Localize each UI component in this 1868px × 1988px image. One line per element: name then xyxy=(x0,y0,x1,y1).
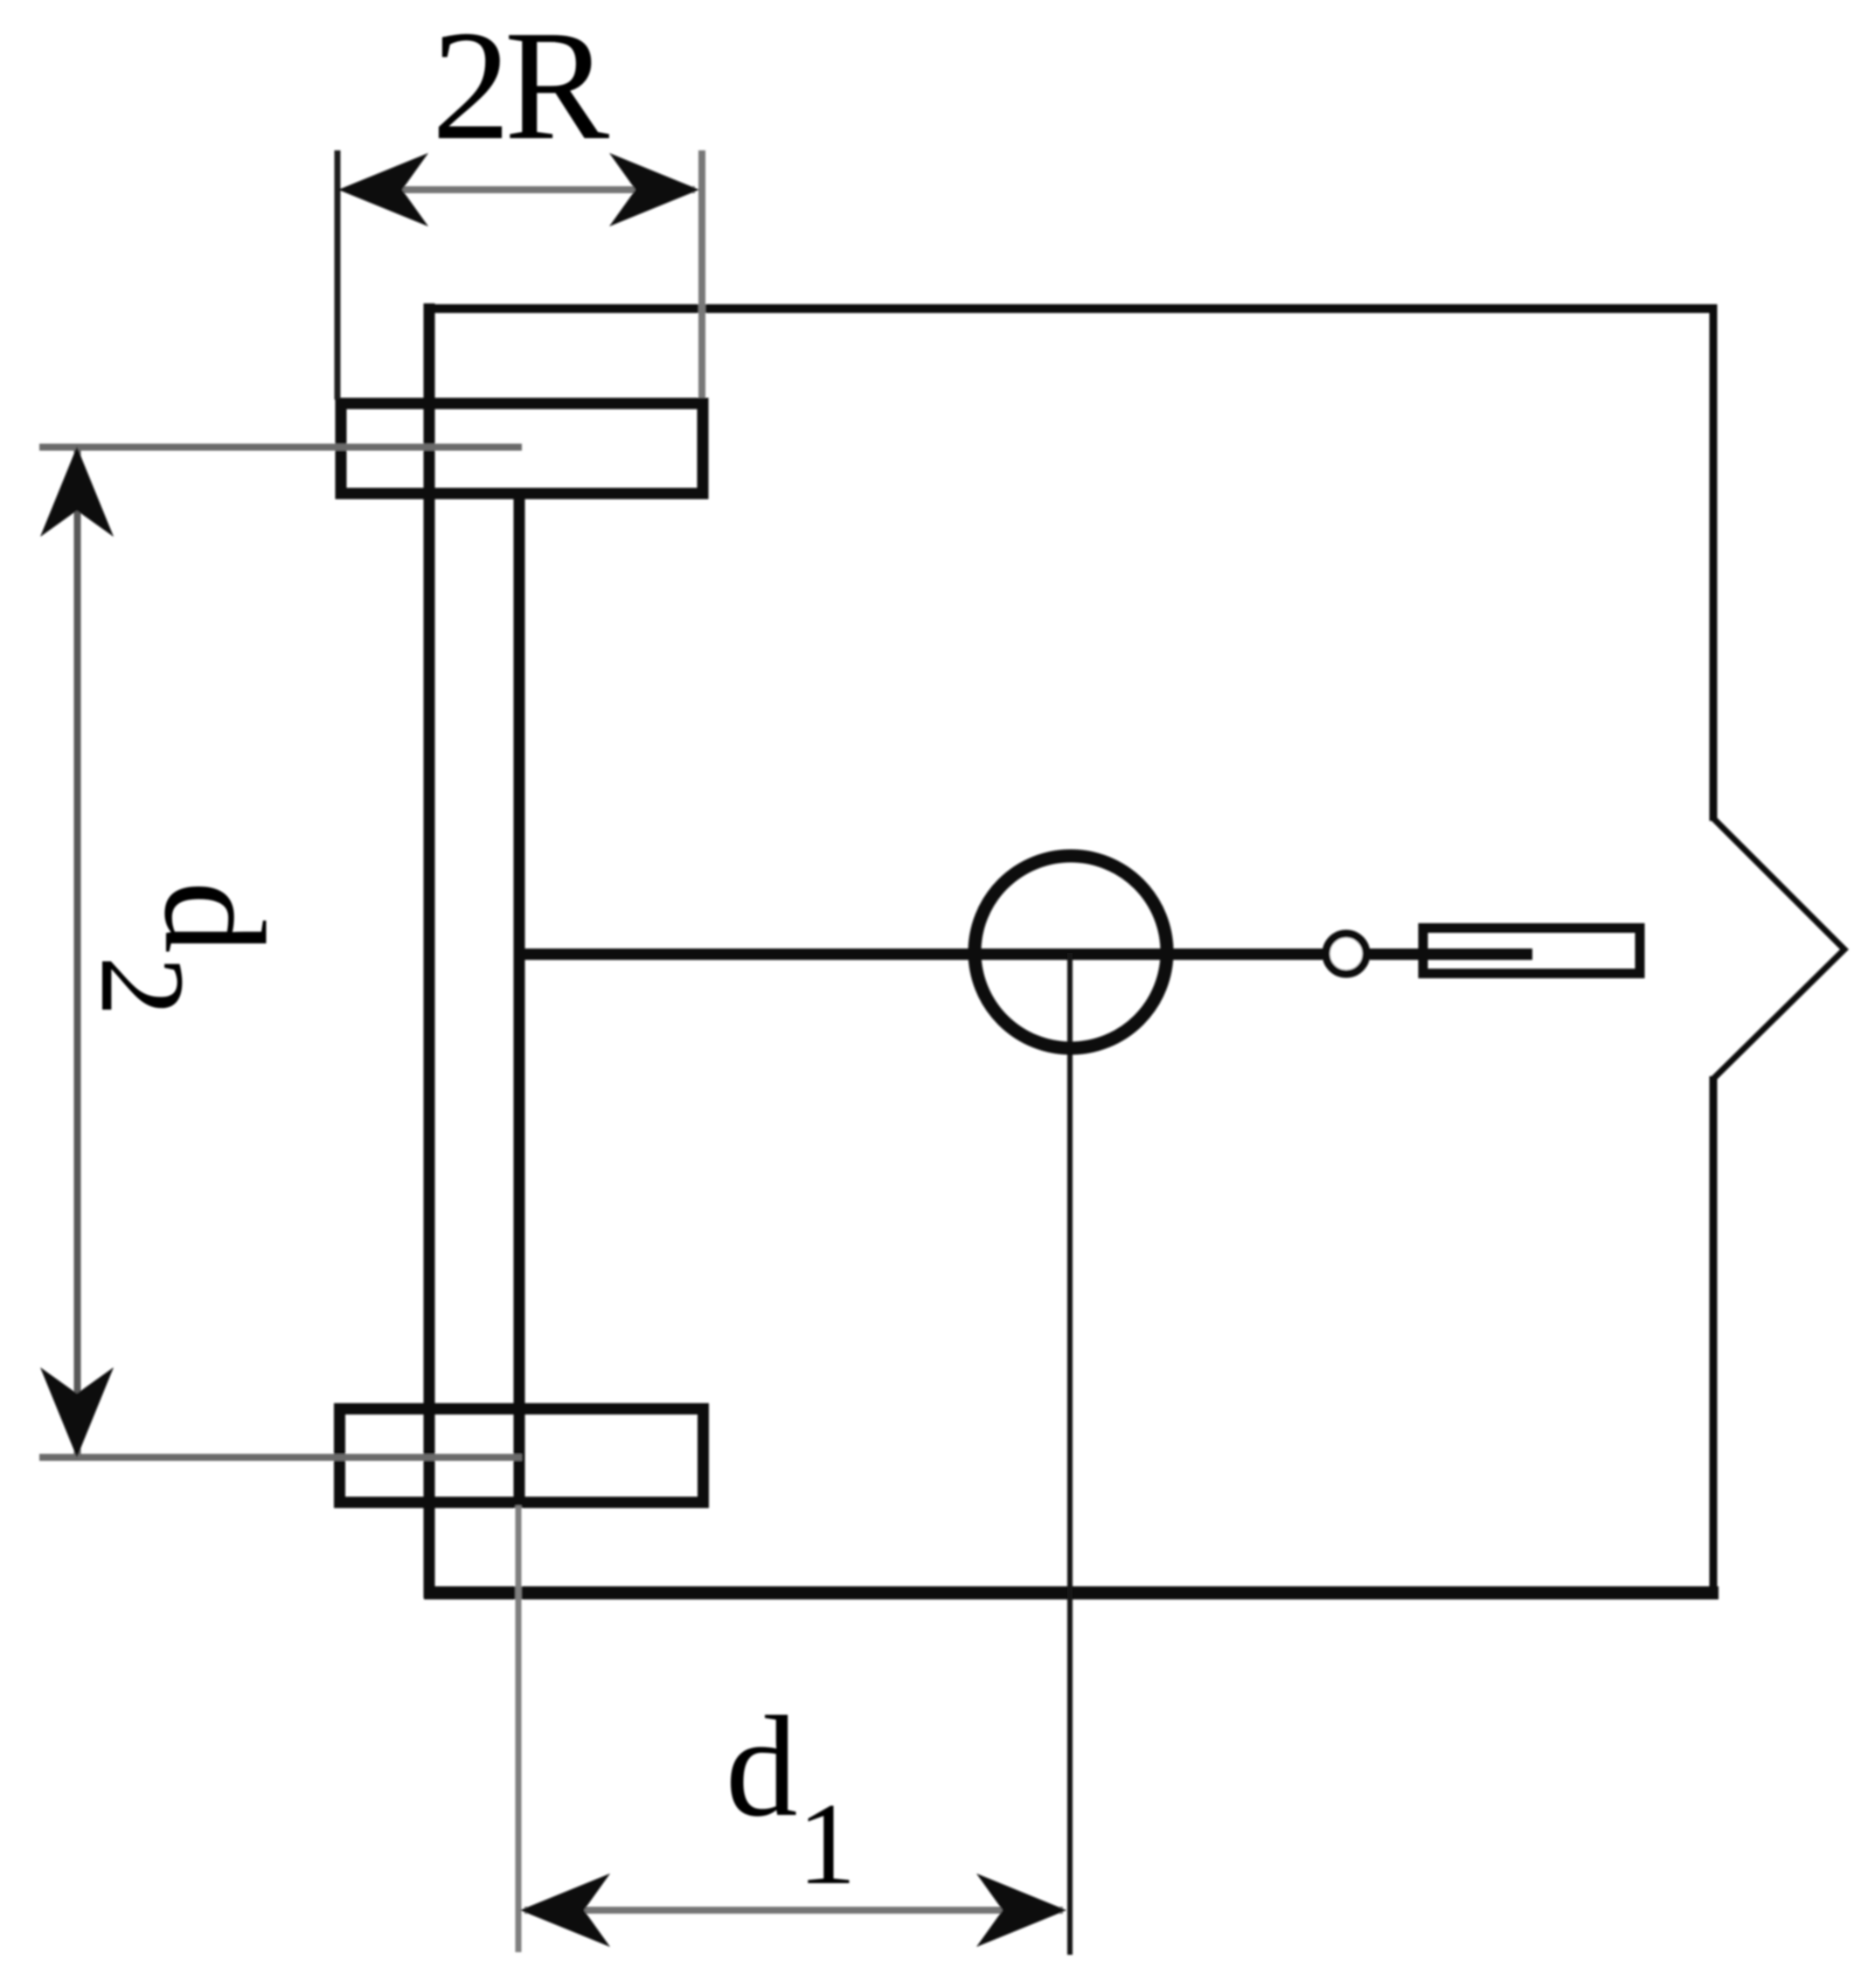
wire: body right edge upper segment xyxy=(1710,304,1718,821)
bottom stub rectangle xyxy=(340,1409,704,1503)
wire: body left edge / strip left conductor xyxy=(424,303,435,1598)
small junction circle xyxy=(1326,934,1366,974)
dimension d2: dimension line xyxy=(74,450,81,1454)
dimension 2R: right extension line xyxy=(698,150,705,398)
dimension 2R: dimension line xyxy=(345,186,695,193)
wire: strip right conductor xyxy=(514,490,525,1506)
dimension d2: top extension line xyxy=(39,444,522,451)
connector rectangle xyxy=(1423,928,1640,974)
node: vertical center line from circle down to d1 extension xyxy=(1067,953,1073,1955)
svg-text:2R: 2R xyxy=(432,0,609,172)
dimension d2: bottom extension line xyxy=(39,1454,522,1461)
dimension d1: dimension line xyxy=(524,1907,1063,1914)
dimension d1: left extension line (below strip) xyxy=(516,1505,522,1952)
wire: body bottom edge xyxy=(424,1587,1719,1600)
dimension d1: left arrowhead xyxy=(520,1873,610,1947)
top stub rectangle xyxy=(341,404,703,494)
wire: body top edge xyxy=(425,304,1717,313)
dimension d2: top arrowhead xyxy=(40,447,114,537)
dimension 2R: right arrowhead xyxy=(609,153,699,226)
probe disk circle xyxy=(975,856,1167,1048)
wire: feed line from small circle into connector xyxy=(1370,949,1532,960)
dimension d2: bottom arrowhead xyxy=(40,1367,114,1457)
dimension 2R: left extension line xyxy=(335,150,341,400)
wire: feed line from strip to probe circle xyxy=(521,949,1323,960)
dimension 2R: left arrowhead xyxy=(338,153,428,226)
dimension d1: right arrowhead xyxy=(976,1873,1066,1947)
wire: chevron notch on right edge xyxy=(1713,818,1844,1079)
wire: body right edge lower segment xyxy=(1710,1076,1718,1597)
